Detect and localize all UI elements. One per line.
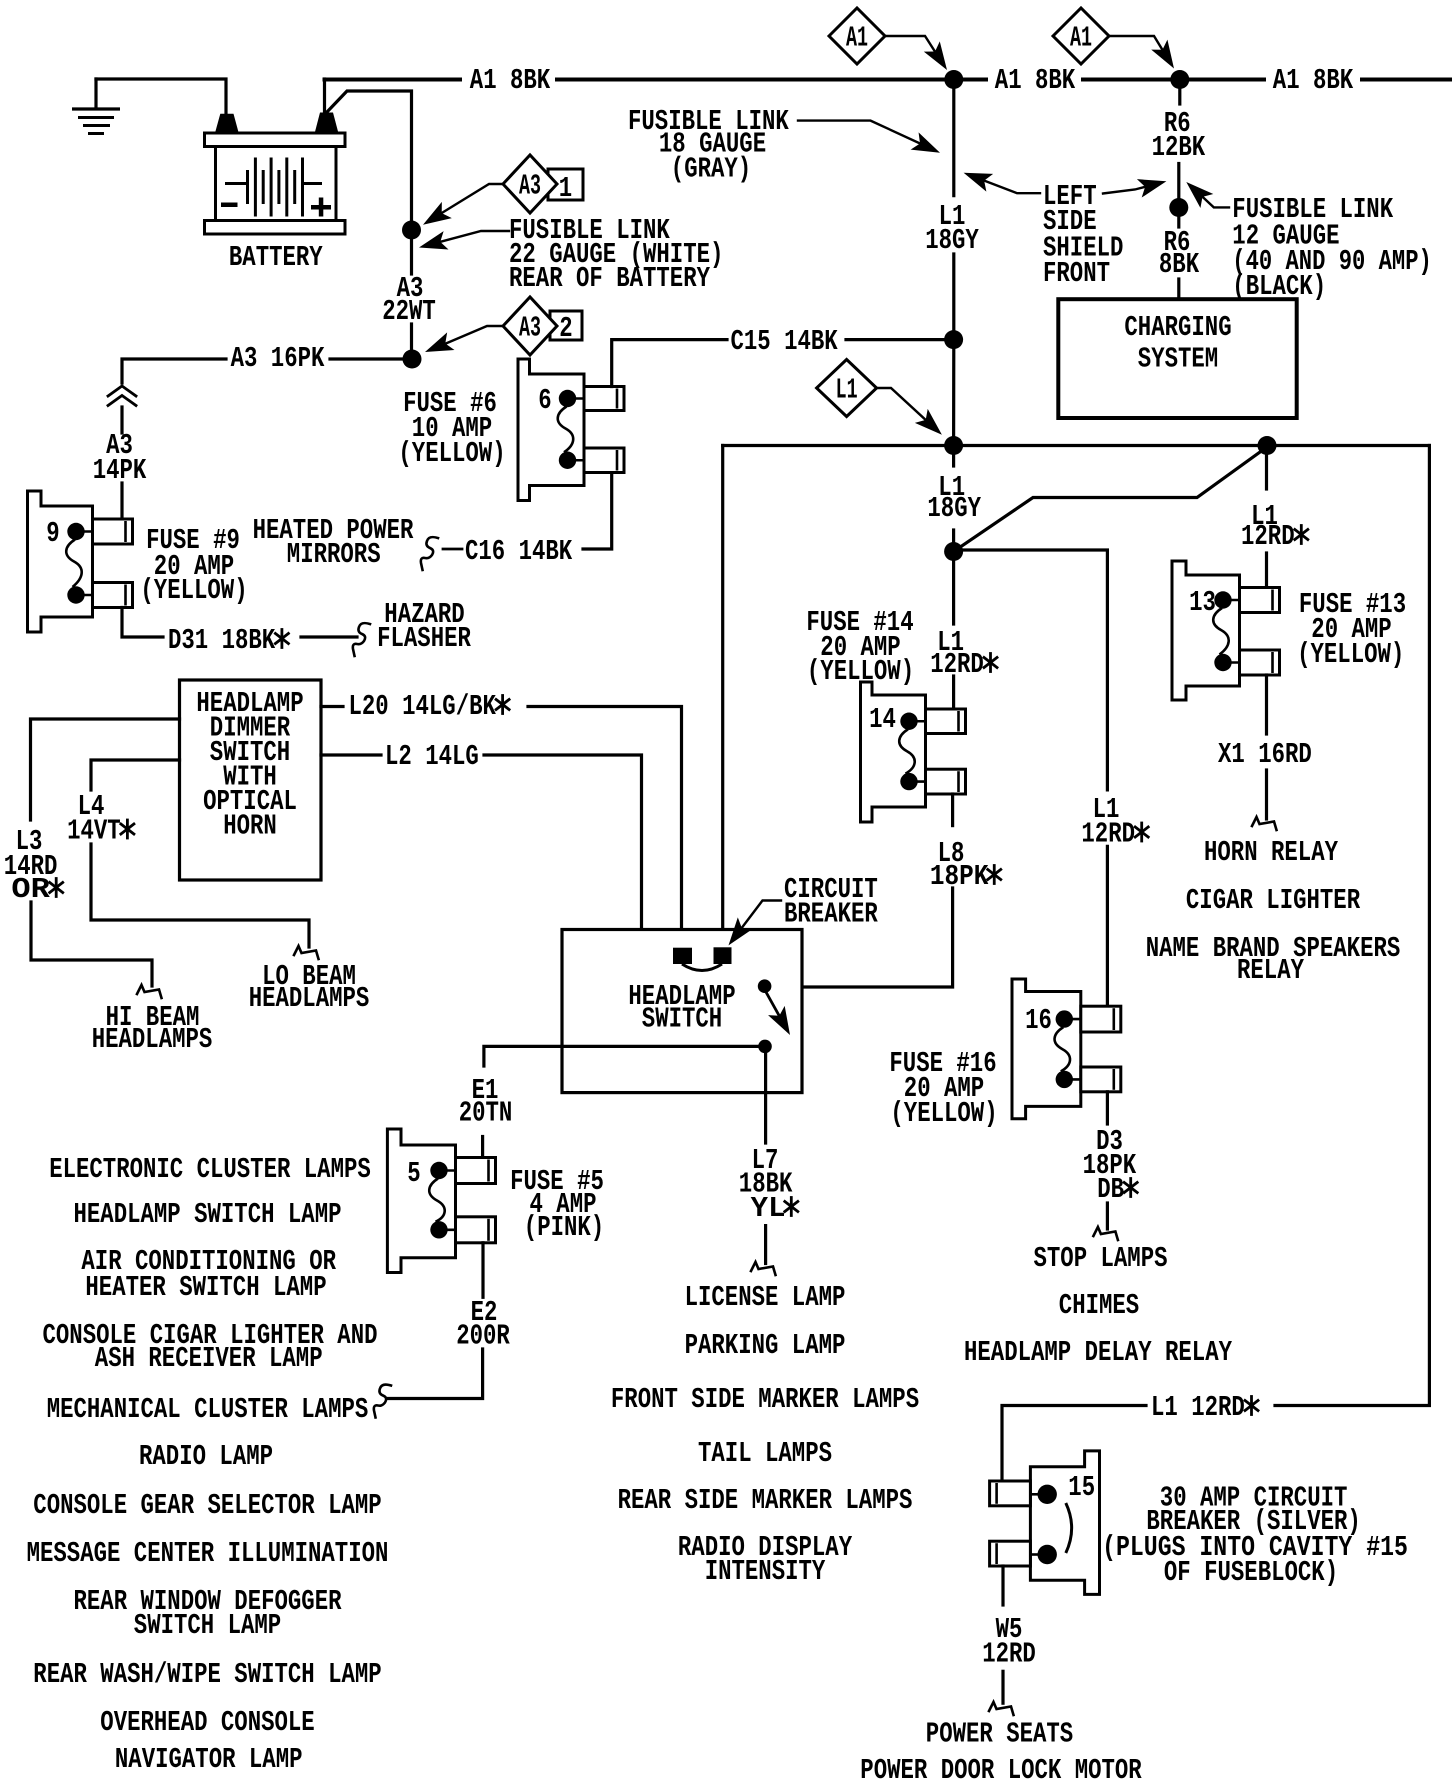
wire L1 12RD* to fuse 16 bbox=[954, 550, 1108, 790]
headlamp switch box bbox=[562, 930, 802, 1093]
svg-text:L2 14LG: L2 14LG bbox=[385, 740, 479, 773]
svg-text:TAIL LAMPS: TAIL LAMPS bbox=[698, 1437, 832, 1470]
svg-text:(PINK): (PINK) bbox=[524, 1211, 604, 1244]
wire C15 to L1 junction bbox=[846, 338, 954, 341]
connector diamond A3-2 bbox=[503, 297, 557, 355]
svg-text:13: 13 bbox=[1189, 586, 1216, 619]
svg-text:2: 2 bbox=[559, 312, 572, 345]
junction dot bus/fuse13 bbox=[1258, 436, 1277, 455]
svg-text:FRONT SIDE MARKER LAMPS: FRONT SIDE MARKER LAMPS bbox=[611, 1383, 919, 1416]
wire A1 8BK bus segment 3 bbox=[1362, 78, 1450, 82]
wire A3 22WT bbox=[410, 232, 413, 274]
wire L7 from switch bbox=[764, 1052, 767, 1143]
svg-text:22WT: 22WT bbox=[382, 295, 436, 328]
svg-text:18GY: 18GY bbox=[925, 224, 979, 257]
svg-text:HEATER SWITCH LAMP: HEATER SWITCH LAMP bbox=[85, 1271, 326, 1304]
wire E1 into fuse 5 bbox=[481, 1137, 484, 1158]
svg-text:FLASHER: FLASHER bbox=[377, 622, 471, 655]
connector diamond A1 (right) bbox=[1053, 8, 1109, 64]
svg-text:16: 16 bbox=[1025, 1004, 1052, 1037]
svg-text:A3: A3 bbox=[519, 170, 541, 203]
svg-text:(YELLOW): (YELLOW) bbox=[1297, 638, 1404, 671]
svg-text:LICENSE LAMP: LICENSE LAMP bbox=[685, 1281, 846, 1314]
switch contact lower bbox=[758, 1040, 772, 1054]
wire L4 from dimmer bbox=[91, 760, 180, 790]
svg-text:8BK: 8BK bbox=[1159, 248, 1200, 281]
wire jog from fuse13 dot to L1 node bbox=[954, 447, 1267, 552]
wire L1 into lower junction bbox=[952, 530, 955, 552]
break to heated power mirrors bbox=[421, 537, 438, 570]
wire R6 12BK bbox=[1178, 80, 1181, 105]
wire A1 8BK bus segment 2 bbox=[557, 78, 986, 82]
break to lo beam headlamps bbox=[294, 946, 319, 959]
circuit breaker CB15 (30 amp) bbox=[1030, 1451, 1099, 1595]
wire A3 into fuse 9 bbox=[120, 483, 123, 519]
wire into fuse 14 bbox=[952, 676, 955, 709]
svg-text:OF FUSEBLOCK): OF FUSEBLOCK) bbox=[1164, 1556, 1338, 1589]
svg-text:CHIMES: CHIMES bbox=[1059, 1289, 1139, 1322]
wire R6 middle bbox=[1177, 164, 1180, 199]
svg-text:(YELLOW): (YELLOW) bbox=[140, 574, 247, 607]
leader fusible link 12 gauge to R6 dot bbox=[1192, 187, 1229, 207]
svg-text:POWER SEATS: POWER SEATS bbox=[926, 1718, 1073, 1751]
svg-text:HEADLAMPS: HEADLAMPS bbox=[92, 1023, 213, 1056]
wire L20 from dimmer bbox=[321, 705, 343, 708]
wire break chevrons on A3 bbox=[108, 386, 136, 396]
svg-text:REAR SIDE MARKER LAMPS: REAR SIDE MARKER LAMPS bbox=[618, 1484, 913, 1517]
wire A3 16PK (right segment) bbox=[330, 357, 404, 360]
wire W5 to break bbox=[1001, 1671, 1004, 1703]
leader left side shield to L1 bbox=[971, 176, 1040, 194]
wire into fuse 16 bbox=[1106, 846, 1109, 1006]
junction dot C15/L1 bbox=[944, 330, 963, 349]
svg-text:(YELLOW): (YELLOW) bbox=[398, 437, 505, 470]
leader circuit breaker bbox=[735, 901, 781, 937]
svg-text:REAR OF BATTERY: REAR OF BATTERY bbox=[509, 262, 711, 295]
fuse F16 (fuse #16 20 amp) bbox=[1012, 979, 1081, 1119]
svg-text:A1 8BK: A1 8BK bbox=[470, 64, 551, 97]
wire A3 below label bbox=[410, 324, 413, 357]
wire E2 from fuse 5 bbox=[481, 1243, 484, 1298]
wire bus to fuse 13 bbox=[1265, 447, 1268, 489]
junction dot L1 lower bbox=[944, 542, 963, 561]
svg-text:A3: A3 bbox=[519, 312, 541, 345]
svg-text:SWITCH: SWITCH bbox=[642, 1003, 722, 1036]
svg-text:12BK: 12BK bbox=[1152, 131, 1206, 164]
svg-text:REAR WASH/WIPE SWITCH LAMP: REAR WASH/WIPE SWITCH LAMP bbox=[33, 1658, 381, 1691]
svg-text:L1: L1 bbox=[836, 374, 858, 407]
svg-text:1: 1 bbox=[559, 172, 572, 205]
leader to fusible link 22 gauge bbox=[427, 231, 509, 245]
svg-text:HEADLAMPS: HEADLAMPS bbox=[249, 982, 370, 1015]
leader from diamond A1 right bbox=[1109, 36, 1168, 59]
svg-text:MIRRORS: MIRRORS bbox=[287, 538, 381, 571]
svg-text:(BLACK): (BLACK) bbox=[1232, 270, 1326, 303]
svg-text:CIGAR LIGHTER: CIGAR LIGHTER bbox=[1186, 884, 1361, 917]
wire L8 to headlamp switch bbox=[771, 888, 953, 987]
svg-text:A1 8BK: A1 8BK bbox=[995, 64, 1076, 97]
svg-text:HEADLAMP SWITCH LAMP: HEADLAMP SWITCH LAMP bbox=[74, 1198, 342, 1231]
svg-text:18PK: 18PK bbox=[930, 860, 989, 893]
leader from diamond A3-1 bbox=[432, 184, 503, 219]
svg-text:CONSOLE GEAR SELECTOR LAMP: CONSOLE GEAR SELECTOR LAMP bbox=[33, 1489, 381, 1522]
wire bus to headlamp switch breaker bbox=[721, 446, 724, 949]
junction dot A1/R6 bbox=[1170, 70, 1189, 89]
wire A1 8BK bus segment 1 bbox=[325, 78, 461, 82]
wire W5 from 30A breaker bbox=[1001, 1566, 1004, 1605]
connector diamond L1 bbox=[817, 360, 877, 417]
junction dot R6 fusible link bbox=[1169, 198, 1188, 217]
wire E2 to mechanical cluster lamps bbox=[388, 1349, 483, 1399]
svg-text:14: 14 bbox=[869, 703, 896, 736]
wire R6 into charging system bbox=[1177, 279, 1180, 299]
wire C16 to fuse 6 bbox=[583, 473, 612, 550]
svg-text:X1 16RD: X1 16RD bbox=[1218, 738, 1312, 771]
break to power seats bbox=[989, 1702, 1014, 1715]
wire L1 to fuse 14 bbox=[952, 552, 955, 625]
svg-text:SYSTEM: SYSTEM bbox=[1138, 343, 1218, 376]
wire A1 8BK bus segment 2b bbox=[1083, 78, 1264, 82]
svg-text:12RD: 12RD bbox=[982, 1638, 1036, 1671]
switch blade arrow bbox=[766, 992, 781, 1019]
wire right edge L1 12RD* down bbox=[1275, 446, 1429, 1406]
junction dot A3 (upper) bbox=[402, 221, 421, 240]
svg-text:OVERHEAD CONSOLE: OVERHEAD CONSOLE bbox=[100, 1706, 314, 1739]
leader from diamond A1 left bbox=[885, 36, 941, 61]
svg-text:INTENSITY: INTENSITY bbox=[705, 1555, 826, 1588]
svg-text:(YELLOW): (YELLOW) bbox=[807, 655, 914, 688]
circuit breaker terminal right bbox=[714, 947, 732, 964]
svg-text:MECHANICAL CLUSTER LAMPS: MECHANICAL CLUSTER LAMPS bbox=[47, 1393, 369, 1426]
reference box 2 of diamond A3-2 bbox=[550, 311, 582, 340]
wire A3 to label bbox=[120, 407, 123, 433]
svg-text:D31 18BK: D31 18BK bbox=[168, 624, 276, 657]
wire E1 from switch bbox=[484, 1046, 759, 1066]
svg-text:FRONT: FRONT bbox=[1043, 257, 1110, 290]
svg-text:ELECTRONIC CLUSTER LAMPS: ELECTRONIC CLUSTER LAMPS bbox=[49, 1153, 371, 1186]
wire L8 from fuse 14 bbox=[951, 794, 954, 826]
battery bbox=[205, 133, 346, 147]
break to hazard flasher bbox=[353, 623, 370, 656]
break to license lamp group bbox=[751, 1262, 776, 1275]
svg-text:A1: A1 bbox=[846, 22, 868, 55]
svg-text:A1 8BK: A1 8BK bbox=[1273, 64, 1354, 97]
svg-text:20TN: 20TN bbox=[459, 1097, 513, 1130]
svg-text:A3 16PK: A3 16PK bbox=[231, 342, 325, 375]
wire L4 to lo beam bbox=[91, 844, 309, 947]
svg-text:PARKING LAMP: PARKING LAMP bbox=[685, 1329, 846, 1362]
break to stop lamps bbox=[1093, 1227, 1118, 1240]
wire D31 (right segment) bbox=[301, 635, 357, 638]
break to hi beam headlamps bbox=[137, 985, 162, 998]
fuse F6 (fuse #6 10 amp) bbox=[518, 359, 584, 501]
wire L1 12RD* into 30A breaker bbox=[1002, 1406, 1146, 1482]
connector diamond A1 (left) bbox=[829, 8, 885, 64]
svg-text:L20 14LG/BK: L20 14LG/BK bbox=[349, 690, 497, 723]
wire D3 from fuse 16 bbox=[1106, 1092, 1109, 1124]
svg-text:SWITCH LAMP: SWITCH LAMP bbox=[134, 1609, 281, 1642]
reference box 1 of diamond A3-1 bbox=[548, 169, 583, 200]
svg-text:RELAY: RELAY bbox=[1237, 954, 1305, 987]
svg-text:18GY: 18GY bbox=[927, 492, 981, 525]
wire ground to battery negative bbox=[96, 79, 226, 114]
wire L3 to hi beam bbox=[31, 902, 152, 986]
svg-text:BREAKER: BREAKER bbox=[784, 898, 878, 931]
fuse F9 (fuse #9 20 amp) bbox=[28, 491, 93, 632]
wire X1 to break bbox=[1265, 770, 1268, 819]
circuit breaker arc bbox=[682, 964, 722, 971]
leader left side shield to R6 bbox=[1103, 184, 1158, 194]
svg-text:RADIO LAMP: RADIO LAMP bbox=[139, 1440, 273, 1473]
svg-text:MESSAGE CENTER ILLUMINATION: MESSAGE CENTER ILLUMINATION bbox=[27, 1537, 389, 1570]
wire L7 to break bbox=[764, 1226, 767, 1264]
connector diamond A3-1 bbox=[503, 155, 557, 213]
svg-text:HEADLAMP DELAY RELAY: HEADLAMP DELAY RELAY bbox=[964, 1336, 1233, 1369]
wire L1 18GY (upper) bbox=[952, 80, 955, 196]
svg-text:YL: YL bbox=[751, 1192, 786, 1225]
break to horn relay bbox=[1252, 817, 1277, 830]
fuse F13 (fuse #13 20 amp) bbox=[1172, 561, 1240, 700]
svg-text:A1: A1 bbox=[1070, 22, 1092, 55]
headlamp dimmer switch box bbox=[180, 680, 322, 880]
svg-text:HORN RELAY: HORN RELAY bbox=[1204, 836, 1339, 869]
svg-text:ASH RECEIVER LAMP: ASH RECEIVER LAMP bbox=[95, 1342, 323, 1375]
wire C16 stub bbox=[443, 548, 462, 551]
leader to fusible link 18 gauge bbox=[798, 121, 932, 149]
svg-text:CHARGING: CHARGING bbox=[1124, 311, 1231, 344]
fuse F5 (fuse #5 4 amp) bbox=[387, 1129, 455, 1273]
svg-text:12RD: 12RD bbox=[930, 648, 984, 681]
svg-text:14PK: 14PK bbox=[93, 454, 147, 487]
wire into fuse 13 bbox=[1265, 553, 1268, 588]
wire C15 from fuse 6 bbox=[612, 340, 727, 387]
junction dot A1/L1 bbox=[944, 70, 963, 89]
wire D3 to break bbox=[1106, 1203, 1109, 1229]
junction dot A3 (lower) bbox=[403, 350, 422, 369]
svg-text:C15 14BK: C15 14BK bbox=[731, 325, 839, 358]
svg-text:NAVIGATOR LAMP: NAVIGATOR LAMP bbox=[115, 1743, 303, 1776]
junction dot bus/L1 bbox=[944, 436, 963, 455]
svg-text:5: 5 bbox=[407, 1157, 420, 1190]
svg-text:C16 14BK: C16 14BK bbox=[465, 535, 573, 568]
wire L1 18GY (middle) bbox=[952, 447, 955, 466]
fuse F14 (fuse #14 20 amp) bbox=[861, 682, 926, 822]
svg-text:L1 12RD: L1 12RD bbox=[1151, 1391, 1245, 1424]
wire main bus L1 12RD* bbox=[723, 444, 1430, 447]
svg-text:DB: DB bbox=[1097, 1173, 1124, 1206]
wire L20 to headlamp switch bbox=[528, 707, 682, 946]
wire L2 to headlamp switch bbox=[484, 755, 642, 928]
svg-text:STOP LAMPS: STOP LAMPS bbox=[1034, 1242, 1168, 1275]
ground bbox=[94, 79, 97, 108]
svg-text:(GRAY): (GRAY) bbox=[671, 153, 751, 186]
leader from diamond A3-2 bbox=[432, 326, 503, 349]
svg-text:BATTERY: BATTERY bbox=[229, 241, 323, 274]
wire L2 from dimmer bbox=[321, 753, 381, 756]
wire battery positive stub bbox=[323, 79, 326, 112]
charging system box bbox=[1058, 299, 1296, 418]
break to mechanical cluster lamps bbox=[374, 1385, 391, 1418]
svg-text:15: 15 bbox=[1068, 1471, 1095, 1504]
svg-text:(YELLOW): (YELLOW) bbox=[890, 1097, 997, 1130]
wire battery positive to A3 junction bbox=[327, 91, 412, 228]
wire X1 from fuse 13 bbox=[1265, 675, 1268, 734]
leader from diamond L1 bbox=[877, 388, 935, 429]
wire R6 below dot bbox=[1177, 217, 1180, 227]
wire L3 from dimmer bbox=[31, 719, 180, 820]
svg-text:POWER DOOR LOCK MOTOR: POWER DOOR LOCK MOTOR bbox=[860, 1754, 1142, 1782]
wire L1 into C15 junction bbox=[952, 254, 955, 444]
wire fuse 9 to D31 bbox=[122, 608, 163, 638]
svg-text:HORN: HORN bbox=[223, 810, 277, 843]
circuit breaker terminal left bbox=[673, 948, 692, 964]
svg-text:9: 9 bbox=[46, 517, 59, 550]
svg-text:12RD: 12RD bbox=[1241, 520, 1295, 553]
switch contact upper bbox=[758, 979, 772, 993]
svg-text:6: 6 bbox=[538, 384, 551, 417]
wire A3 16PK (left segment) bbox=[122, 359, 226, 383]
svg-text:14VT: 14VT bbox=[67, 815, 121, 848]
